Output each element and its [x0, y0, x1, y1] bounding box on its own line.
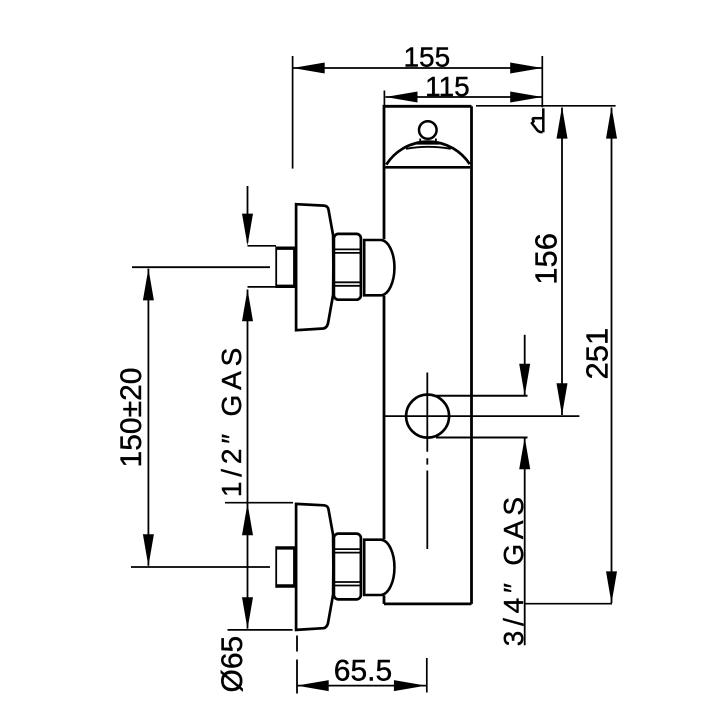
- svg-text:65.5: 65.5: [334, 654, 392, 687]
- svg-text:155: 155: [403, 42, 450, 73]
- svg-text:3/4″ GAS: 3/4″ GAS: [498, 492, 529, 646]
- svg-text:150±20: 150±20: [115, 368, 148, 468]
- svg-text:1/2″ GAS: 1/2″ GAS: [216, 343, 247, 497]
- svg-text:156: 156: [529, 233, 564, 285]
- svg-text:Ø65: Ø65: [216, 636, 249, 693]
- svg-text:115: 115: [425, 71, 470, 102]
- svg-text:251: 251: [580, 328, 615, 380]
